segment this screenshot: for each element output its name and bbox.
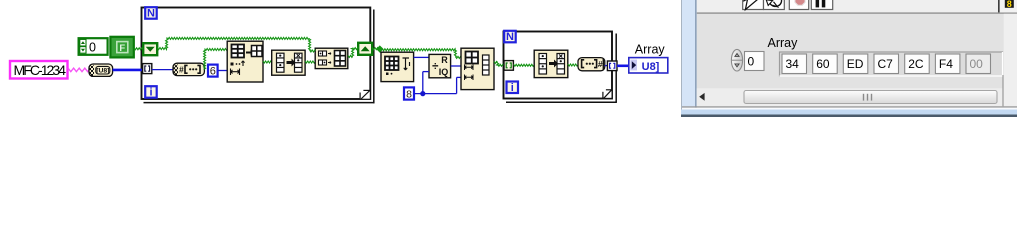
svg-text:34: 34 — [786, 57, 800, 71]
svg-text:2C: 2C — [908, 57, 924, 71]
svg-text:[U8]: [U8] — [96, 68, 109, 75]
svg-text:N: N — [147, 8, 155, 20]
svg-text:MFC-1234: MFC-1234 — [14, 62, 67, 78]
svg-text:0: 0 — [89, 40, 96, 54]
svg-text:ED: ED — [847, 57, 864, 71]
svg-text:F: F — [119, 43, 125, 54]
svg-text:8: 8 — [1007, 0, 1012, 9]
svg-text:60: 60 — [816, 57, 830, 71]
svg-text:N: N — [506, 31, 514, 43]
svg-text:U8]: U8] — [642, 61, 660, 73]
svg-text:F4: F4 — [939, 57, 953, 71]
svg-text:8: 8 — [406, 88, 412, 100]
svg-text:#: # — [598, 59, 603, 69]
svg-text:i: i — [511, 82, 514, 94]
svg-text:0: 0 — [748, 54, 755, 68]
svg-text:IQ: IQ — [439, 67, 449, 77]
svg-text:Array: Array — [635, 42, 666, 56]
svg-text:R: R — [441, 55, 448, 65]
svg-text:6: 6 — [210, 66, 216, 78]
svg-text:#: # — [179, 65, 184, 75]
svg-text:C7: C7 — [878, 57, 894, 71]
svg-text:00: 00 — [970, 57, 984, 71]
svg-text:i: i — [149, 87, 152, 99]
svg-text:Array: Array — [768, 36, 799, 50]
